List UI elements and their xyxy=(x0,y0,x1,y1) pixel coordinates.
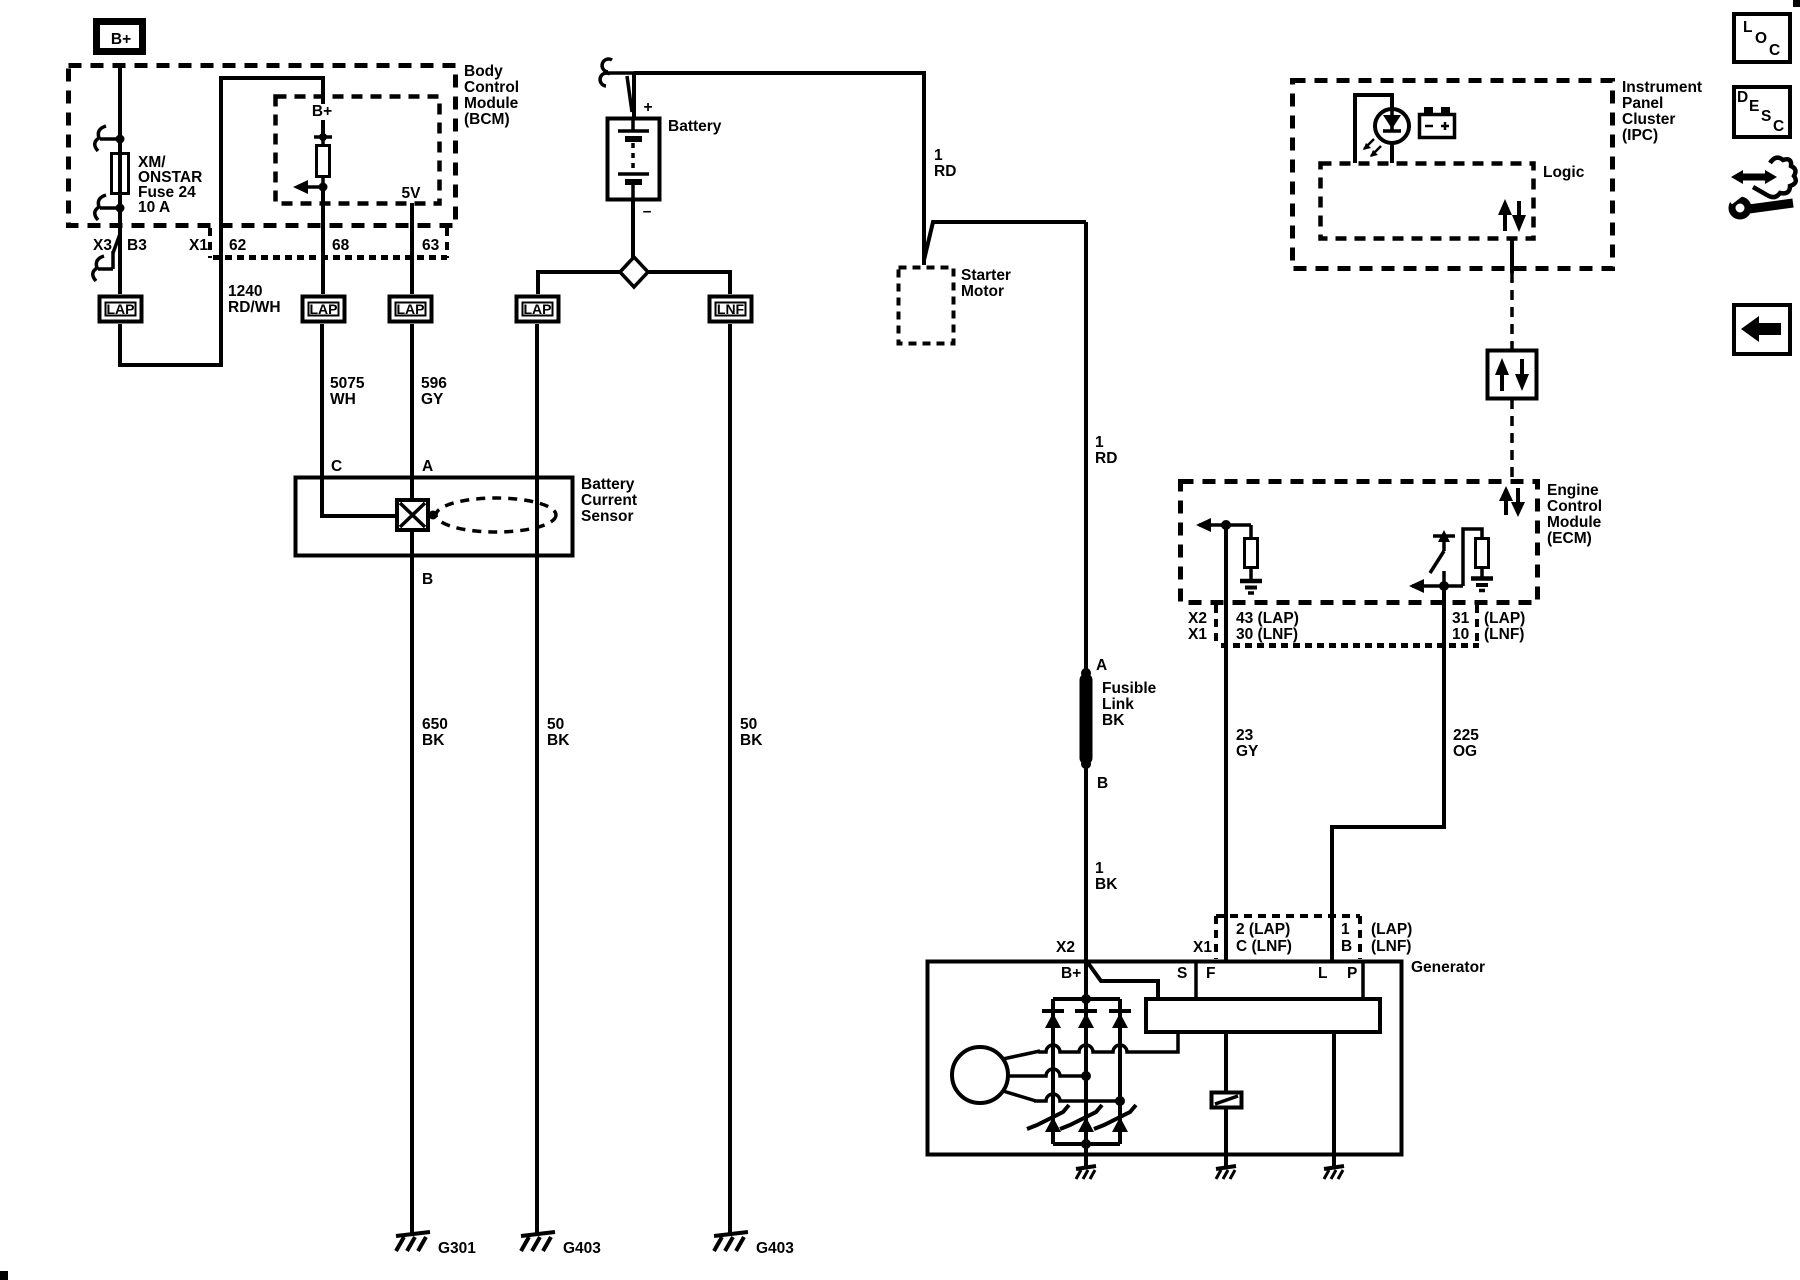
battery current sensor hall element xyxy=(397,500,438,530)
ECM serial data arrows xyxy=(1499,486,1525,517)
ground (ECM left internal) xyxy=(1240,581,1262,593)
wire BCM pin 63 down to LAP3 xyxy=(410,203,414,294)
svg-text:B3: B3 xyxy=(127,237,147,254)
field coil symbol xyxy=(1212,1093,1242,1108)
svg-text:X1: X1 xyxy=(1188,626,1207,643)
inline connector hook above fuse xyxy=(95,126,125,151)
inline connector hook below X3 xyxy=(93,251,113,281)
svg-text:Sensor: Sensor xyxy=(581,508,634,525)
svg-text:(BCM): (BCM) xyxy=(464,111,510,128)
svg-text:5V: 5V xyxy=(402,185,422,202)
svg-text:Panel: Panel xyxy=(1622,95,1663,112)
IPC logic dashed box xyxy=(1321,164,1534,239)
svg-text:GY: GY xyxy=(1236,743,1259,760)
svg-text:D: D xyxy=(1737,89,1748,106)
wire field coil to ground xyxy=(1224,1108,1228,1155)
IPC charge indicator wiring xyxy=(1355,95,1392,163)
ground G403 left xyxy=(521,1232,601,1257)
svg-text:C: C xyxy=(331,458,342,475)
svg-text:1240: 1240 xyxy=(228,283,262,300)
svg-text:G403: G403 xyxy=(563,1240,601,1257)
wire 596 GY LAP3 to sensor A xyxy=(410,324,414,477)
svg-text:Body: Body xyxy=(464,63,503,80)
logic label xyxy=(1543,164,1585,181)
wire BCM pin 68 down to LAP2 xyxy=(321,187,325,294)
svg-text:Generator: Generator xyxy=(1411,959,1485,976)
ECM internal resistor (right) xyxy=(1463,529,1489,586)
generator ground stub center xyxy=(1076,1155,1096,1179)
node B label xyxy=(1097,775,1108,792)
svg-text:P: P xyxy=(1347,965,1357,982)
svg-text:WH: WH xyxy=(330,391,356,408)
svg-text:Motor: Motor xyxy=(961,283,1004,300)
svg-text:S: S xyxy=(1761,108,1771,125)
diode D1 top xyxy=(1042,1011,1064,1028)
wire 650 BK sensor B to G301 xyxy=(410,556,414,1234)
zener diode Z1 bottom xyxy=(1027,1105,1069,1132)
IPC logic serial arrows xyxy=(1498,199,1526,232)
BCM label xyxy=(464,63,519,128)
svg-text:596: 596 xyxy=(421,375,447,392)
diode D2 top xyxy=(1075,1011,1097,1028)
svg-text:S: S xyxy=(1177,965,1187,982)
svg-text:Cluster: Cluster xyxy=(1622,111,1675,128)
generator B+ wire to diode bus xyxy=(1081,961,1091,1004)
svg-text:X3: X3 xyxy=(93,237,112,254)
svg-text:LAP: LAP xyxy=(107,301,135,317)
svg-text:C: C xyxy=(1773,118,1784,135)
ECM connector row xyxy=(1188,605,1525,646)
wire 50 BK LNF to G403 xyxy=(730,324,763,1234)
rectifier vertical legs xyxy=(1053,999,1120,1144)
svg-text:Engine: Engine xyxy=(1547,482,1599,499)
ECM module dashed box xyxy=(1181,482,1538,603)
svg-text:Control: Control xyxy=(1547,498,1602,515)
svg-text:Instrument: Instrument xyxy=(1622,79,1702,96)
svg-text:LAP: LAP xyxy=(524,301,552,317)
wire B+ terminal down through fuse to LAP1 xyxy=(118,65,122,294)
wire battery negative to junction diamond xyxy=(631,200,635,258)
icon box LOC xyxy=(1734,14,1790,62)
battery current sensor box xyxy=(296,478,573,556)
generator P cell divider xyxy=(1361,961,1365,999)
ground G301 xyxy=(396,1232,476,1257)
svg-text:X1: X1 xyxy=(189,237,208,254)
wire 5075 WH LAP2 to sensor C xyxy=(320,324,324,477)
inline connector hook at battery positive xyxy=(600,59,634,112)
svg-text:Starter: Starter xyxy=(961,267,1011,284)
corner mark top right xyxy=(1793,0,1800,7)
label 1 RD (to fusible link) xyxy=(1095,434,1117,467)
svg-text:G301: G301 xyxy=(438,1240,476,1257)
svg-text:RD: RD xyxy=(1095,450,1117,467)
svg-text:Battery: Battery xyxy=(668,118,722,135)
label 650 BK xyxy=(422,716,448,749)
svg-text:10: 10 xyxy=(1452,626,1469,643)
rectifier bottom bus xyxy=(1053,1139,1120,1155)
sensor pin label B xyxy=(422,571,433,588)
svg-text:B+: B+ xyxy=(1061,965,1081,982)
generator B+ branch to regulator xyxy=(1088,963,1158,999)
svg-text:62: 62 xyxy=(229,237,246,254)
svg-text:BK: BK xyxy=(422,732,445,749)
stator phase C wire xyxy=(1003,1091,1125,1106)
terminal box LAP2 xyxy=(303,297,345,322)
svg-text:RD/WH: RD/WH xyxy=(228,299,281,316)
svg-text:BK: BK xyxy=(740,732,763,749)
wire 1 BK fusible link to generator B+ xyxy=(1084,764,1088,961)
svg-text:68: 68 xyxy=(332,237,350,254)
BCM internal signal arrow xyxy=(293,180,328,194)
wire 50 BK LAP4 to G403 xyxy=(537,324,570,1234)
svg-text:Battery: Battery xyxy=(581,476,635,493)
svg-text:30 (LNF): 30 (LNF) xyxy=(1236,626,1298,643)
svg-text:A: A xyxy=(422,458,433,475)
BCM module dashed box xyxy=(69,66,456,226)
fuse label XM/ONSTAR Fuse 24 10 A xyxy=(138,154,202,216)
label 1240 RD/WH xyxy=(228,283,281,316)
wire 23 GY ECM pin 43/30 to generator F xyxy=(1224,525,1228,961)
svg-text:31: 31 xyxy=(1452,610,1470,627)
label 5V xyxy=(402,185,422,202)
fuse 24 xyxy=(112,154,129,194)
svg-text:X1: X1 xyxy=(1193,939,1212,956)
svg-text:F: F xyxy=(1206,965,1215,982)
wire generator F terminal xyxy=(1224,1032,1228,1092)
IPC module dashed box xyxy=(1293,81,1613,269)
generator ground stub L xyxy=(1324,1155,1344,1179)
battery label xyxy=(668,118,722,135)
svg-text:Link: Link xyxy=(1102,696,1134,713)
serial data wire IPC to ECM xyxy=(1510,239,1514,481)
generator box xyxy=(928,962,1402,1155)
svg-text:RD: RD xyxy=(934,163,956,180)
diode D3 top xyxy=(1109,1011,1131,1028)
svg-text:1: 1 xyxy=(1095,860,1104,877)
svg-text:50: 50 xyxy=(547,716,564,733)
svg-text:43 (LAP): 43 (LAP) xyxy=(1236,610,1299,627)
label 1 BK xyxy=(1095,860,1118,893)
IPC battery icon xyxy=(1420,107,1455,138)
generator terminal labels xyxy=(1061,965,1357,982)
svg-text:C: C xyxy=(1769,42,1780,59)
svg-text:B: B xyxy=(422,571,433,588)
ground G403 right xyxy=(714,1232,794,1257)
wire diamond to LNF xyxy=(648,272,730,294)
svg-text:LAP: LAP xyxy=(397,301,425,317)
svg-text:G403: G403 xyxy=(756,1240,794,1257)
ECM internal resistor (left) xyxy=(1245,525,1258,580)
ECM left signal arrow node xyxy=(1196,518,1251,532)
svg-text:10 A: 10 A xyxy=(138,199,170,216)
wire LAP1 to BCM pin 62 (1240 RD/WH) xyxy=(120,78,323,365)
svg-text:1: 1 xyxy=(934,147,943,164)
ECM internal switch (right) xyxy=(1430,530,1455,586)
battery current sensor internal wires xyxy=(322,477,412,556)
svg-text:Control: Control xyxy=(464,79,519,96)
svg-text:E: E xyxy=(1749,98,1759,115)
sensor pin labels C A xyxy=(331,458,433,475)
corner mark bottom left xyxy=(0,1271,8,1280)
node A label xyxy=(1096,657,1107,674)
generator S/F cell divider xyxy=(1194,961,1198,999)
svg-text:B: B xyxy=(1341,938,1352,955)
generator connector dashed box xyxy=(1216,916,1360,959)
ground (ECM right internal) xyxy=(1471,579,1493,591)
wire generator L terminal to ground xyxy=(1332,1032,1336,1155)
svg-text:+: + xyxy=(643,99,652,116)
svg-text:OG: OG xyxy=(1453,743,1477,760)
svg-text:Logic: Logic xyxy=(1543,164,1585,181)
svg-text:(LNF): (LNF) xyxy=(1371,938,1411,955)
zener diode Z2 bottom xyxy=(1060,1105,1102,1132)
svg-text:Current: Current xyxy=(581,492,637,509)
terminal box LAP3 xyxy=(390,297,432,322)
svg-text:Module: Module xyxy=(1547,514,1602,531)
svg-text:225: 225 xyxy=(1453,727,1479,744)
BCM connector dashed separators and bottom row xyxy=(210,228,447,258)
inline connector hook below fuse xyxy=(95,195,125,220)
svg-text:(LAP): (LAP) xyxy=(1371,921,1412,938)
wire battery positive to starter and 1 RD feed xyxy=(634,73,1086,265)
generator label xyxy=(1411,959,1485,976)
label 225 OG xyxy=(1453,727,1479,760)
svg-text:650: 650 xyxy=(422,716,448,733)
fusible link label xyxy=(1102,680,1157,729)
svg-text:2 (LAP): 2 (LAP) xyxy=(1236,921,1290,938)
svg-text:–: – xyxy=(643,203,652,220)
zener diode Z3 bottom xyxy=(1094,1105,1136,1132)
svg-text:(ECM): (ECM) xyxy=(1547,530,1592,547)
terminal box LNF xyxy=(710,297,752,322)
stator phase B wire xyxy=(1008,1069,1091,1081)
IPC charge indicator LED xyxy=(1363,109,1409,157)
svg-text:X2: X2 xyxy=(1188,610,1207,627)
ECM right signal arrow node xyxy=(1409,579,1463,593)
svg-text:50: 50 xyxy=(740,716,757,733)
BCM connector row labels xyxy=(93,237,440,254)
svg-text:GY: GY xyxy=(421,391,444,408)
icon wrench and arrows xyxy=(1725,158,1796,216)
sensor dashed ellipse loop xyxy=(436,498,556,532)
svg-text:1: 1 xyxy=(1095,434,1104,451)
BCM internal resistor xyxy=(317,137,330,187)
rectifier top bus xyxy=(1053,997,1120,1001)
svg-text:O: O xyxy=(1755,30,1767,47)
terminal box LAP1 xyxy=(100,297,142,322)
starter motor dashed box xyxy=(899,268,954,344)
svg-text:C (LNF): C (LNF) xyxy=(1236,938,1292,955)
wire 1 RD to fusible link xyxy=(1084,222,1088,672)
starter motor label xyxy=(961,267,1011,300)
svg-text:B+: B+ xyxy=(312,103,332,120)
BCM inner dashed box xyxy=(276,97,440,204)
svg-text:23: 23 xyxy=(1236,727,1254,744)
junction diamond splice xyxy=(620,257,648,287)
icon box DESC xyxy=(1734,87,1790,137)
serial data bus symbol box xyxy=(1488,351,1537,399)
stator phase A wire to regulator xyxy=(1003,1034,1178,1059)
voltage regulator box xyxy=(1146,999,1380,1032)
power terminal B+ xyxy=(97,22,143,52)
svg-text:B+: B+ xyxy=(111,31,131,48)
connector X3/B3 slash xyxy=(113,234,120,253)
fusible link BK xyxy=(1081,668,1091,769)
svg-text:(LAP): (LAP) xyxy=(1484,610,1525,627)
svg-text:L: L xyxy=(1743,19,1752,36)
generator connector labels xyxy=(1056,921,1412,956)
icon box back arrow xyxy=(1734,305,1790,354)
BCM internal B+ node xyxy=(312,103,332,141)
svg-text:BK: BK xyxy=(1095,876,1118,893)
svg-text:X2: X2 xyxy=(1056,939,1075,956)
ECM label xyxy=(1547,482,1602,547)
stator winding circle xyxy=(952,1047,1008,1103)
svg-text:B: B xyxy=(1097,775,1108,792)
svg-text:BK: BK xyxy=(1102,712,1125,729)
svg-text:Fusible: Fusible xyxy=(1102,680,1157,697)
svg-text:L: L xyxy=(1318,965,1327,982)
label 23 GY xyxy=(1236,727,1259,760)
label 1 RD (battery feed) xyxy=(934,147,956,180)
svg-text:Module: Module xyxy=(464,95,519,112)
svg-text:LAP: LAP xyxy=(310,301,338,317)
svg-text:1: 1 xyxy=(1341,921,1350,938)
svg-text:(LNF): (LNF) xyxy=(1484,626,1524,643)
battery current sensor label xyxy=(581,476,637,525)
IPC label xyxy=(1622,79,1702,144)
wire diamond to LAP4 xyxy=(538,272,620,294)
svg-text:A: A xyxy=(1096,657,1107,674)
label 5075 WH xyxy=(330,375,365,408)
wire 225 OG ECM pin 31/10 to generator L xyxy=(1332,586,1444,961)
svg-text:63: 63 xyxy=(422,237,440,254)
svg-text:(IPC): (IPC) xyxy=(1622,127,1658,144)
label 596 GY xyxy=(421,375,447,408)
battery xyxy=(608,99,660,220)
terminal box LAP4 xyxy=(517,297,559,322)
generator ground stub field xyxy=(1216,1155,1236,1179)
svg-text:5075: 5075 xyxy=(330,375,365,392)
svg-text:BK: BK xyxy=(547,732,570,749)
svg-text:LNF: LNF xyxy=(717,301,745,317)
